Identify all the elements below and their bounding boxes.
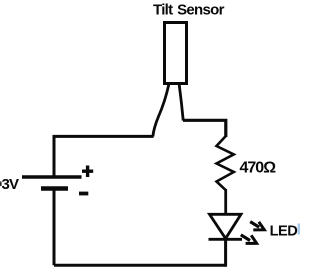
- wire: resistor to LED anode: [224, 189, 227, 215]
- battery BT1: negative plate (short thick): [41, 186, 68, 191]
- wire: bottom rail: [54, 264, 226, 267]
- light emission arrow 1 (upper): [250, 222, 264, 230]
- svg-text:Tilt Sensor: Tilt Sensor: [153, 2, 225, 19]
- wire: tilt sensor left lead (curved): [153, 85, 169, 137]
- light emission arrow 2 (lower): [241, 235, 257, 244]
- resistor R1 (zigzag): [217, 136, 234, 190]
- wire: top-left horizontal + left vertical down to battery: [54, 136, 154, 176]
- svg-text:3V: 3V: [2, 176, 20, 193]
- wire: right horizontal from tilt sensor + corner down to resistor: [183, 120, 226, 137]
- tilt sensor SW1 (body): [165, 23, 187, 84]
- LED D1: cathode bar: [209, 238, 243, 241]
- cut-off character fragment at left edge: [0, 182, 2, 187]
- label: -: [79, 192, 88, 196]
- battery BT1: positive plate (long): [22, 175, 82, 178]
- svg-text:LED: LED: [270, 223, 298, 239]
- LED D1: triangle (anode): [210, 214, 242, 238]
- svg-text:470Ω: 470Ω: [240, 160, 277, 177]
- cut-off blue glyph at right edge: [298, 224, 300, 235]
- wire: right vertical from bottom rail up to LED: [224, 239, 227, 267]
- label: +: [82, 166, 93, 178]
- wire: battery to bottom rail: [53, 190, 56, 265]
- wire: tilt sensor right lead: [179, 85, 183, 121]
